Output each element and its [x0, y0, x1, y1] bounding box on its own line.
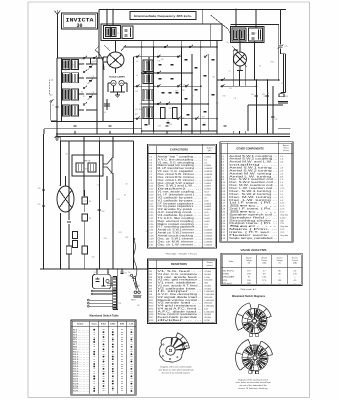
- svg-text:L8: L8: [136, 61, 138, 63]
- svg-text:—: —: [279, 283, 281, 285]
- variable capacitor C6: [88, 92, 95, 100]
- svg-text:0.0001: 0.0001: [204, 186, 211, 188]
- svg-text:Aerial cir. S.W.2 trimmer ...: Aerial cir. S.W.2 trimmer ... ...: [158, 232, 203, 235]
- svg-text:S15: S15: [85, 168, 88, 170]
- svg-text:1st I.F. trans. { Pri. ...: 1st I.F. trans. { Pri. ...: [229, 202, 278, 205]
- wire audio mid: [60, 186, 84, 269]
- svg-text:C33: C33: [158, 125, 161, 127]
- svg-text:CAPACITORS: CAPACITORS: [170, 148, 188, 152]
- svg-text:X41 (FC/Pe): X41 (FC/Pe): [223, 270, 234, 272]
- svg-text:Smoothing choke ...: Smoothing choke ...: [229, 219, 278, 222]
- svg-text:L10: L10: [226, 42, 229, 44]
- other components table: [220, 142, 293, 243]
- capacitor C40: [98, 209, 105, 213]
- svg-text:S2: S2: [259, 66, 261, 68]
- svg-text:Osc. cir. L.W. trimmer ... ...: Osc. cir. L.W. trimmer ... ...: [158, 243, 203, 246]
- coil L5 frame: [63, 105, 79, 116]
- wire detector drops: [233, 50, 245, 86]
- svg-text:divider ... ...: divider ... ...: [158, 319, 203, 322]
- wire audio verticals: [60, 141, 133, 269]
- label intermediate frequency box: [130, 12, 196, 20]
- wire IFT2 feeds: [235, 9, 256, 28]
- wire right narrow loop: [281, 54, 286, 94]
- svg-text:V4 grid resistance ...: V4 grid resistance ...: [158, 305, 203, 308]
- svg-text:Aerial cir. S.W.1 trimmer ...: Aerial cir. S.W.1 trimmer ... ...: [158, 229, 203, 232]
- svg-text:Osc. S.W.1 reaction coil ...: Osc. S.W.1 reaction coil ...: [229, 178, 278, 181]
- svg-text:S6: S6: [267, 93, 269, 95]
- svg-text:L4: L4: [248, 34, 250, 36]
- svg-text:L31: L31: [229, 88, 232, 90]
- svg-text:M.W.: M.W.: [120, 324, 125, 326]
- svg-text:C30: C30: [160, 59, 163, 61]
- coil L3 L4 aerial MW LW: [63, 89, 79, 100]
- svg-text:V1 met. anode coupling ... ...: V1 met. anode coupling ... ...: [158, 191, 203, 194]
- svg-text:S26 ... ... ...: S26 ... ... ...: [73, 391, 90, 393]
- svg-text:L11: L11: [135, 109, 138, 111]
- wire output drops: [256, 79, 273, 134]
- svg-text:S30: S30: [175, 90, 178, 92]
- svg-text:Osc. cir. S.W.1 trimmer ... ..: Osc. cir. S.W.1 trimmer ... ...: [158, 237, 203, 240]
- junction dots ladder: [141, 46, 218, 132]
- svg-text:C1: C1: [228, 70, 230, 72]
- svg-text:OTHER COMPONENTS: OTHER COMPONENTS: [236, 147, 264, 150]
- resistor R11: [173, 108, 178, 119]
- svg-text:—: —: [279, 277, 281, 279]
- svg-text:50,000: 50,000: [204, 274, 211, 276]
- svg-text:—: —: [294, 277, 296, 279]
- capacitor C30: [251, 94, 258, 97]
- svg-text:Osc. circuit L.W. trimmer ...: Osc. circuit L.W. trimmer ... ...: [158, 179, 203, 182]
- wire ladder horizontals: [124, 47, 218, 131]
- svg-text:S7: S7: [83, 96, 85, 98]
- svg-text:C32: C32: [212, 77, 215, 79]
- valve V1 frequency changer: [95, 41, 126, 74]
- capacitors above chassis: [73, 125, 226, 126]
- svg-text:Osc. S.W.2 reaction coil ...: Osc. S.W.2 reaction coil ...: [229, 181, 278, 184]
- svg-text:S.W.1: S.W.1: [101, 324, 107, 326]
- wire mid right: [248, 41, 291, 131]
- scale lamps: [108, 76, 127, 98]
- svg-text:units, drawn as seen when view: units, drawn as seen when viewed from: [235, 381, 270, 384]
- capacitors footnote: [165, 253, 197, 256]
- svg-text:Osc. M.W. reaction coil ...: Osc. M.W. reaction coil ...: [229, 184, 278, 187]
- capacitors IF ladder: [145, 59, 215, 125]
- svg-text:I.F. by-pass capacitors ... ..: I.F. by-pass capacitors ... ...: [158, 202, 203, 205]
- svg-text:C8: C8: [125, 183, 127, 185]
- svg-text:S10: S10: [223, 95, 226, 97]
- svg-text:R6: R6: [89, 201, 91, 203]
- resistor R31: [82, 214, 91, 232]
- capacitor C41: [67, 221, 71, 222]
- svg-text:Osc. circuit S.W. trimmer ...: Osc. circuit S.W. trimmer ... ...: [158, 173, 203, 176]
- svg-text:Mains lead top coupling ... ..: Mains lead top coupling ... ...: [158, 164, 203, 167]
- coil L11: [135, 107, 153, 119]
- valve analysis title: [241, 248, 267, 252]
- svg-text:4,700: 4,700: [204, 320, 210, 322]
- page edge bottom: [28, 397, 309, 399]
- svg-text:Aerial S.W.2 coupling ...: Aerial S.W.2 coupling ...: [229, 158, 278, 161]
- switch S2: [93, 56, 97, 59]
- svg-text:228†: 228†: [247, 283, 251, 285]
- svg-text:C24: C24: [124, 273, 127, 275]
- svg-text:100,000: 100,000: [204, 280, 213, 282]
- svg-text:0.0005: 0.0005: [204, 165, 211, 167]
- svg-text:I.F. by-pass capacitors ... ..: I.F. by-pass capacitors ... ...: [158, 205, 203, 208]
- svg-text:S24: S24: [92, 256, 95, 258]
- svg-text:R13: R13: [119, 232, 122, 234]
- oscillator coil L6: [104, 99, 110, 114]
- IF transformer 2: [231, 27, 265, 43]
- ground aerial: [55, 133, 60, 140]
- svg-text:0.0002: 0.0002: [204, 189, 211, 191]
- svg-text:* Electrolytic. † Variable.: * Electrolytic. † Variable. ‡ Pre-set.: [165, 253, 197, 256]
- waveband switch table title: [89, 314, 119, 318]
- svg-text:RESISTORS: RESISTORS: [171, 262, 187, 266]
- wire speaker secondary: [107, 173, 113, 269]
- page edge left: [27, 2, 29, 398]
- svg-text:C37: C37: [64, 69, 67, 71]
- capacitor C21: [278, 45, 288, 49]
- svg-text:Int. I.F. (interplate cond.) .: Int. I.F. (interplate cond.) ... ...: [158, 193, 203, 196]
- svg-text:V1 osc. C.G. capacitor ... ...: V1 osc. C.G. capacitor ... ...: [158, 170, 203, 173]
- IF transformer 1 trimmers: [122, 26, 133, 39]
- wire output bus: [220, 79, 280, 81]
- IF transformer 2 trimmers: [249, 28, 263, 41]
- wire IF can drops: [142, 41, 217, 48]
- svg-text:C36: C36: [169, 124, 172, 126]
- svg-text:Aerial circuit tracking ... ..: Aerial circuit tracking ... ...: [158, 235, 203, 238]
- IF transformer 1: [104, 26, 121, 39]
- coil L1 aerial SW1: [63, 60, 79, 70]
- svg-text:C6: C6: [92, 92, 94, 94]
- svg-text:S22: S22: [182, 117, 185, 119]
- svg-text:V1 osc. anode feed ...: V1 osc. anode feed ...: [158, 277, 203, 279]
- svg-text:S29: S29: [182, 90, 185, 92]
- svg-text:50,000: 50,000: [204, 314, 211, 316]
- svg-text:A.F.C. diode load ...: A.F.C. diode load ...: [158, 310, 203, 313]
- svg-text:V2 cathode by-pass ... ...: V2 cathode by-pass ... ...: [158, 196, 203, 199]
- svg-text:C29: C29: [38, 204, 41, 206]
- svg-text:coupling ... ...: coupling ... ...: [229, 165, 278, 167]
- antenna: [55, 10, 61, 58]
- switch S21: [221, 84, 225, 87]
- svg-text:V1 osc. S.G. decoupling ... ..: V1 osc. S.G. decoupling ... ...: [158, 162, 203, 164]
- svg-text:V4: V4: [59, 185, 61, 187]
- svg-text:VALVE ANALYSIS: VALVE ANALYSIS: [241, 248, 267, 252]
- svg-text:—: —: [263, 283, 265, 285]
- svg-text:V1 met. stabiliser ...: V1 met. stabiliser ...: [158, 282, 203, 285]
- svg-text:C26: C26: [102, 211, 105, 213]
- svg-text:—: —: [294, 283, 296, 285]
- svg-text:R34: R34: [271, 61, 274, 63]
- wire top HT bus: [99, 9, 286, 58]
- wire lower drops: [44, 134, 85, 269]
- svg-text:1,000,000: 1,000,000: [204, 311, 215, 313]
- svg-text:2nd I.F. trans. { Pri. ...: 2nd I.F. trans. { Pri. ...: [229, 208, 278, 211]
- capacitor C28 left edge: [38, 188, 46, 207]
- svg-text:Tone control resistance ...: Tone control resistance ...: [158, 313, 203, 316]
- wire drops to chassis: [75, 131, 246, 134]
- variable capacitor C4: [88, 76, 95, 84]
- capacitor C32: [271, 116, 277, 121]
- IF can boundary: [101, 24, 222, 47]
- svg-text:Very low: Very low: [280, 213, 288, 216]
- svg-text:(V): (V): [248, 263, 251, 265]
- svg-text:C14: C14: [81, 59, 84, 61]
- switch S4: [83, 86, 87, 89]
- svg-text:R38: R38: [285, 96, 288, 98]
- wire bias bus: [217, 80, 256, 86]
- capacitor C31: [262, 94, 269, 97]
- coil L8: [136, 60, 153, 72]
- svg-text:Values: Values: [207, 262, 213, 264]
- svg-text:Osc. cir. M.W. trimmer ... ...: Osc. cir. M.W. trimmer ... ...: [158, 240, 203, 243]
- svg-text:Waveband Switch Table: Waveband Switch Table: [89, 314, 119, 318]
- svg-text:C28: C28: [38, 188, 41, 190]
- svg-text:0.00005: 0.00005: [204, 233, 213, 235]
- svg-text:R16: R16: [139, 109, 142, 111]
- svg-text:S.W.2: S.W.2: [110, 324, 115, 326]
- svg-text:0.001: 0.001: [204, 221, 210, 223]
- svg-text:25.0*: 25.0*: [204, 215, 209, 217]
- svg-text:0.0001: 0.0001: [204, 209, 211, 211]
- svg-text:Aerial S.W.2 tuning ...: Aerial S.W.2 tuning ...: [229, 169, 278, 172]
- wire tuning verticals: [91, 58, 104, 131]
- valve V4 output: [57, 176, 74, 212]
- page edge right: [309, 2, 311, 398]
- mains cable: [133, 238, 137, 288]
- svg-text:V2 signal diode load ...: V2 signal diode load ...: [158, 297, 203, 299]
- svg-text:S6: S6: [124, 194, 126, 196]
- svg-text:C5: C5: [72, 65, 74, 67]
- svg-text:Gram.: Gram.: [91, 324, 97, 326]
- switch contacts IF ladder: [136, 45, 208, 120]
- chassis earth bus: [56, 134, 290, 136]
- mains voltage adjustment: [128, 272, 139, 290]
- resistor R30: [82, 190, 91, 212]
- coil L10: [135, 89, 153, 101]
- wire audio top rail: [60, 136, 133, 141]
- svg-text:C22: C22: [253, 33, 256, 35]
- svg-text:U50 (rect.): U50 (rect.): [223, 282, 233, 285]
- svg-text:V2 cathode bias ...: V2 cathode bias ...: [158, 287, 203, 290]
- svg-text:S11: S11: [110, 173, 113, 175]
- svg-text:(μF): (μF): [208, 150, 212, 152]
- svg-text:1,000,000: 1,000,000: [204, 291, 215, 293]
- resistor R10: [161, 108, 166, 119]
- svg-text:L9: L9: [136, 75, 138, 77]
- svg-text:V4 and A.F.C. feed ...: V4 and A.F.C. feed ...: [158, 307, 203, 310]
- wire top right corner: [231, 25, 279, 81]
- svg-text:Osc. L.W. tuning ...: Osc. L.W. tuning ...: [229, 199, 278, 202]
- svg-text:Switch: Switch: [77, 323, 84, 326]
- svg-text:L30: L30: [137, 305, 140, 307]
- svg-text:Osc. circuit M.W. trimmer ...: Osc. circuit M.W. trimmer ... ...: [158, 176, 202, 179]
- svg-text:SPK LS: SPK LS: [84, 161, 91, 163]
- mains transformer winding: [113, 268, 119, 309]
- svg-text:L13: L13: [65, 154, 68, 156]
- svg-text:Osc. M.W. tuning ...: Osc. M.W. tuning ...: [229, 196, 278, 199]
- svg-text:T.V. A.F.C. filter coupling ..: T.V. A.F.C. filter coupling ... ...: [158, 217, 203, 220]
- switch S20: [221, 78, 225, 81]
- svg-text:8.0*: 8.0*: [204, 227, 208, 229]
- svg-text:A.V.C. line decoupling ... ...: A.V.C. line decoupling ... ...: [158, 158, 203, 161]
- svg-text:0.0005: 0.0005: [204, 183, 211, 185]
- svg-text:Speaker speech coil ...: Speaker speech coil ...: [229, 213, 278, 216]
- svg-text:47,000: 47,000: [204, 271, 211, 273]
- svg-text:R8: R8: [89, 218, 91, 220]
- svg-text:SCALE LAMPS: SCALE LAMPS: [109, 76, 125, 79]
- svg-text:chassis. “A” indicates a blan: chassis. “A” indicates a blank tag.: [238, 387, 268, 390]
- svg-text:C1: C1: [107, 272, 109, 274]
- svg-text:†Both anode, A.C.: †Both anode, A.C.: [240, 288, 257, 291]
- terminal double bar: [278, 101, 288, 103]
- svg-text:unit, drawn as seen when viewe: unit, drawn as seen when viewed from: [158, 368, 194, 371]
- svg-text:C35: C35: [285, 46, 288, 48]
- svg-text:V1 cathode by-pass ... ...: V1 cathode by-pass ... ...: [158, 199, 203, 202]
- svg-text:0.00005: 0.00005: [204, 230, 213, 232]
- svg-text:C1: C1: [52, 105, 54, 107]
- switch S5: [83, 102, 87, 105]
- switch S1: [83, 56, 87, 59]
- svg-text:(V): (V): [278, 263, 281, 265]
- svg-text:Feed-back potential ...: Feed-back potential ...: [158, 316, 203, 319]
- svg-text:Diagram of the tone contro: Diagram of the tone control switch: [160, 365, 192, 368]
- svg-text:L15: L15: [216, 102, 219, 104]
- svg-text:240: 240: [128, 272, 131, 274]
- frame aerial loop: [50, 80, 58, 120]
- svg-text:C31: C31: [84, 200, 87, 202]
- svg-text:0.00025: 0.00025: [204, 171, 213, 173]
- svg-text:30: 30: [76, 23, 82, 29]
- svg-text:0.00016: 0.00016: [204, 180, 213, 182]
- svg-text:Aerial M.W. and L.W. ...: Aerial M.W. and L.W. ...: [229, 161, 278, 164]
- capacitor C1: [52, 105, 59, 108]
- svg-text:KTW61: KTW61: [223, 274, 231, 276]
- svg-text:0.002: 0.002: [204, 218, 210, 220]
- svg-text:S16: S16: [183, 84, 186, 86]
- svg-text:C34: C34: [137, 286, 140, 288]
- svg-text:47,000: 47,000: [204, 288, 211, 290]
- wire HT right vertical: [281, 10, 286, 54]
- svg-text:DH63 (D/AF): DH63 (D/AF): [223, 276, 235, 279]
- svg-text:C32: C32: [275, 119, 278, 121]
- svg-text:250,000: 250,000: [204, 303, 213, 305]
- svg-text:R16: R16: [104, 238, 107, 240]
- svg-text:S27: S27: [202, 116, 205, 118]
- wire coil returns: [79, 64, 97, 110]
- svg-text:Sec. ...: Sec. ...: [229, 206, 279, 208]
- svg-text:V1 met. anode H.T. feed ...: V1 met. anode H.T. feed ...: [158, 284, 203, 287]
- svg-text:V1: V1: [107, 48, 109, 50]
- svg-text:Aerial L.W. tuning ...: Aerial L.W. tuning ...: [229, 175, 278, 178]
- tone control switch diagram: [160, 333, 190, 362]
- svg-text:A.F. coupling cond. ... ...: A.F. coupling cond. ... ...: [158, 211, 203, 214]
- svg-text:0.0001: 0.0001: [204, 194, 211, 196]
- wire tuning bottom: [44, 122, 142, 135]
- svg-text:S31: S31: [264, 96, 267, 98]
- svg-text:Very low: Very low: [280, 234, 288, 237]
- svg-text:L26: L26: [281, 83, 284, 85]
- svg-text:L7: L7: [117, 33, 119, 35]
- svg-text:Scale lamps, paralleled ...: Scale lamps, paralleled ...: [229, 237, 278, 240]
- svg-text:(tracker) ... ...: (tracker) ... ...: [158, 188, 203, 191]
- svg-text:0.0003: 0.0003: [204, 203, 211, 205]
- svg-text:Waveband Switch Diagrams: Waveband Switch Diagrams: [232, 295, 266, 298]
- svg-text:40,000: 40,000: [204, 317, 211, 319]
- svg-text:1,000,000: 1,000,000: [204, 294, 215, 296]
- svg-text:C4: C4: [92, 76, 94, 78]
- svg-text:L5: L5: [68, 61, 70, 63]
- coil L9: [136, 74, 153, 84]
- svg-text:M. LP. transformer tuning ...: M. LP. transformer tuning ... ...: [158, 167, 203, 170]
- svg-text:V2 osc. grid resistance ...: V2 osc. grid resistance ...: [158, 279, 203, 282]
- svg-text:0.00005: 0.00005: [204, 244, 213, 246]
- svg-text:Very low: Very low: [280, 225, 288, 228]
- svg-text:I.F. stopper ... ...: I.F. stopper ... ...: [158, 290, 203, 293]
- svg-text:L5: L5: [204, 123, 206, 125]
- svg-text:L10: L10: [82, 64, 85, 66]
- resistor R32: [66, 246, 72, 254]
- svg-text:Det. S.W.1 and L.W. ... ...: Det. S.W.1 and L.W. ... ...: [158, 185, 203, 188]
- svg-text:0.00035: 0.00035: [204, 168, 213, 170]
- waveband switch diagrams heading: [232, 295, 266, 298]
- resistors table: [148, 259, 217, 324]
- transformer taps: [87, 284, 112, 308]
- rectifier valve V5: [92, 268, 111, 289]
- svg-text:Mains { Prim. ...: Mains { Prim. ...: [229, 228, 278, 231]
- wire ladder verticals: [134, 47, 218, 131]
- svg-text:L.W.: L.W.: [129, 324, 133, 326]
- svg-text:trans. { H.T. sec. ...: trans. { H.T. sec. ...: [229, 231, 278, 234]
- svg-text:L6: L6: [104, 112, 106, 114]
- svg-text:C33: C33: [93, 61, 96, 63]
- svg-text:(ohms): (ohms): [206, 265, 213, 267]
- svg-text:1,050: 1,050: [280, 217, 286, 219]
- svg-text:L6: L6: [167, 121, 169, 123]
- coil L2 aerial SW2: [63, 73, 79, 83]
- wire aerial bus: [57, 58, 103, 134]
- rotary switch diagram lower: [236, 339, 273, 373]
- resistor R38: [279, 94, 288, 98]
- svg-text:C30: C30: [251, 94, 254, 96]
- svg-text:C37: C37: [69, 90, 72, 92]
- svg-text:L11: L11: [234, 98, 237, 100]
- tone control caption: [158, 365, 194, 374]
- svg-text:0.00005: 0.00005: [204, 236, 213, 238]
- svg-text:V4 cathode by-pass ... ...: V4 cathode by-pass ... ...: [158, 214, 203, 217]
- svg-text:500,000: 500,000: [204, 297, 213, 299]
- wire AVC diagonal: [211, 15, 246, 60]
- svg-text:Osc. L.W. reaction coil ...: Osc. L.W. reaction coil ...: [229, 187, 278, 190]
- svg-text:Rep. element coupling ... ...: Rep. element coupling ... ...: [158, 220, 203, 223]
- svg-text:1,000,000: 1,000,000: [204, 306, 215, 308]
- svg-text:S2: S2: [193, 118, 195, 120]
- node V1 grid: [98, 57, 104, 59]
- svg-text:1,000,000: 1,000,000: [204, 300, 215, 302]
- valve analysis footnote: [240, 288, 257, 291]
- svg-text:R6: R6: [200, 104, 202, 106]
- svg-text:Aerial S.W.1 coupling ...: Aerial S.W.1 coupling ...: [229, 155, 278, 158]
- svg-text:L5: L5: [192, 95, 194, 97]
- title box INVICTA 30: [62, 13, 98, 29]
- variable capacitor C2: [88, 62, 95, 70]
- svg-text:Heater secs. ...: Heater secs. ...: [229, 234, 278, 237]
- svg-text:50.0*: 50.0*: [204, 192, 209, 194]
- resistor R35: [73, 241, 78, 248]
- rotary switch diagram upper: [236, 303, 272, 337]
- svg-text:R32: R32: [169, 108, 172, 110]
